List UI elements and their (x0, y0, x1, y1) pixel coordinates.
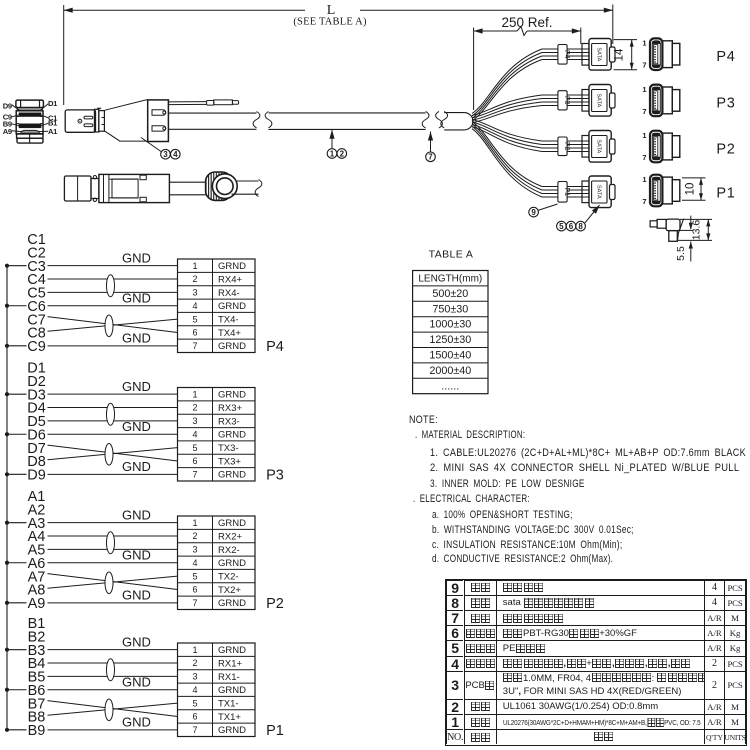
dimension L extension line left (63, 5, 65, 105)
SATA connector P1 latch nub (610, 185, 616, 200)
P3 twisted pair symbol RX (107, 403, 115, 425)
SATA connector P2 side view crimp (582, 136, 589, 158)
svg-text:4: 4 (192, 301, 197, 311)
svg-text:(SEE TABLE A): (SEE TABLE A) (293, 17, 367, 28)
svg-text:RX2+: RX2+ (218, 531, 242, 542)
svg-text:1000±30: 1000±30 (429, 319, 471, 331)
dimension 13.6 extension top (680, 218, 712, 220)
SATA P3 front view latch bars (653, 87, 660, 89)
svg-text:3: 3 (163, 150, 168, 159)
BOM row 5 (446, 640, 464, 655)
svg-text:3: 3 (192, 288, 197, 298)
svg-text:P2: P2 (563, 142, 570, 151)
svg-text:1: 1 (642, 85, 646, 94)
P4 twisted pair symbol TX (105, 315, 113, 337)
svg-text:5: 5 (192, 443, 197, 453)
svg-text:P2: P2 (716, 142, 735, 158)
dimension 13.6 extension bottom (677, 239, 712, 241)
svg-text:7: 7 (192, 725, 197, 735)
BOM row 9 (446, 580, 464, 595)
svg-text:1: 1 (330, 149, 335, 158)
P2 pin table (178, 516, 256, 609)
P1 twisted pair symbol TX (105, 699, 113, 721)
BOM row NO. (446, 729, 464, 744)
dimension 14 line (631, 40, 633, 70)
svg-text:GND: GND (122, 379, 151, 394)
svg-text:GND: GND (122, 507, 151, 522)
SATA P3 front view shell (650, 85, 662, 117)
svg-text:P4: P4 (266, 339, 284, 355)
svg-text:GRND: GRND (218, 390, 246, 401)
SATA P4 front view body (662, 41, 672, 68)
dimension 5.5 line (690, 242, 692, 262)
connector P0 face view A-row band (21, 130, 39, 133)
svg-text:GND: GND (122, 419, 151, 434)
svg-text:2: 2 (340, 149, 345, 158)
svg-text:TABLE A: TABLE A (429, 249, 474, 261)
svg-text:1: 1 (192, 389, 197, 399)
label band P3 (558, 91, 567, 110)
connector P0 face view bottom cap (17, 138, 43, 143)
wire bundle to P2 (472, 120, 589, 142)
svg-text:RX2-: RX2- (218, 545, 240, 556)
P4 signal wires (48, 265, 178, 267)
SATA P1 front view latch bars (653, 178, 660, 180)
svg-text:7: 7 (642, 153, 646, 162)
dimension 10 line (700, 178, 702, 200)
SATA connector P4 side view body (589, 39, 611, 71)
SATA P2 front view rear (672, 136, 680, 158)
dimension 13.6 line (707, 219, 709, 240)
svg-text:P4: P4 (716, 49, 735, 65)
callout circle 9 (529, 207, 539, 217)
svg-text:P2: P2 (266, 596, 284, 612)
svg-text:5: 5 (192, 571, 197, 581)
svg-text:C9: C9 (27, 339, 46, 355)
connector P0 face view body (16, 111, 43, 134)
svg-text:7: 7 (192, 470, 197, 480)
svg-text:GND: GND (122, 548, 151, 563)
BOM row 1 (446, 714, 464, 729)
svg-text:P3: P3 (563, 96, 570, 105)
SATA P1 front view contacts (654, 181, 658, 200)
svg-text:GRND: GRND (218, 341, 246, 352)
svg-text:250 Ref.: 250 Ref. (501, 15, 552, 30)
TABLE A grid (413, 271, 488, 394)
svg-text:P1: P1 (266, 723, 284, 739)
svg-text:TX1-: TX1- (218, 699, 239, 710)
wire bundle to P1 (472, 122, 589, 187)
svg-text:1: 1 (642, 131, 646, 140)
svg-text:GND: GND (122, 634, 151, 649)
svg-text:6: 6 (192, 712, 197, 722)
svg-text:1: 1 (192, 518, 197, 528)
callout circle 1 (327, 149, 337, 159)
svg-text:A9: A9 (3, 127, 12, 136)
svg-text:......: ...... (441, 380, 459, 392)
svg-text:5: 5 (559, 222, 564, 231)
right-angle SATA detail lower block (669, 231, 678, 242)
SATA connector P2 latch nub (610, 139, 616, 154)
svg-text:5.5: 5.5 (675, 246, 687, 261)
P0 plug bump (97, 107, 101, 109)
SATA connector P1 side view body (589, 176, 611, 208)
BOM row 4 (446, 656, 464, 671)
svg-text:GND: GND (122, 250, 151, 265)
svg-text:10: 10 (685, 183, 697, 196)
label band P4 (558, 45, 567, 65)
SATA P2 front view body (662, 133, 672, 160)
svg-text:TX2-: TX2- (218, 572, 239, 583)
P0 top view latch bumps (91, 179, 99, 199)
svg-text:6: 6 (192, 585, 197, 595)
wire bundle to P4 (472, 49, 589, 114)
svg-text:3: 3 (192, 672, 197, 682)
svg-text:3: 3 (192, 416, 197, 426)
P2 crossed TX pair wires (48, 574, 178, 590)
svg-text:D1: D1 (48, 99, 58, 108)
callout circle 2 (337, 149, 347, 159)
svg-text:8: 8 (578, 222, 583, 231)
svg-text:1: 1 (192, 261, 197, 271)
connector P0 face view B-row contact band (19, 124, 41, 128)
svg-text:GRND: GRND (218, 685, 246, 696)
SATA connector P4 latch nub (610, 47, 616, 62)
callout 5 6 8 arrow (585, 205, 600, 223)
P0 overmold block (148, 100, 169, 142)
P4 twisted pair symbol RX (107, 275, 115, 297)
label band P1 (558, 182, 567, 203)
svg-text:4: 4 (192, 685, 197, 695)
SATA P1 front view body (662, 177, 672, 204)
svg-text:P3: P3 (716, 95, 735, 111)
P0 plug prong upper (84, 116, 93, 119)
P1 ground stubs and bus dots (7, 649, 27, 651)
right-angle SATA detail body (666, 219, 680, 231)
svg-text:1: 1 (642, 39, 646, 48)
svg-text:3: 3 (192, 545, 197, 555)
SATA P2 front view contacts (654, 137, 658, 156)
callout circle 3 (161, 149, 171, 159)
wire bundle to P3 (472, 95, 589, 116)
svg-text:P1: P1 (716, 186, 735, 202)
svg-text:SATA: SATA (596, 47, 602, 61)
P0 plug hole (78, 119, 82, 123)
svg-text:6: 6 (569, 222, 574, 231)
right-angle SATA detail nose (650, 221, 657, 227)
P1 twisted pair symbol RX (107, 659, 115, 681)
svg-text:2: 2 (192, 658, 197, 668)
cable segment 1 (168, 112, 256, 114)
P4 crossed TX pair wires (48, 317, 178, 333)
svg-text:TX3-: TX3- (218, 443, 239, 454)
notes section (409, 414, 438, 426)
SATA P1 front view rear (672, 180, 680, 202)
BOM row 3 (446, 671, 464, 699)
svg-text:RX4+: RX4+ (218, 274, 242, 285)
svg-text:1500±40: 1500±40 (429, 350, 471, 362)
dimension 250 Ref. extension line left (473, 28, 475, 111)
svg-text:D9: D9 (27, 468, 46, 484)
svg-text:D9: D9 (3, 101, 12, 110)
svg-text:7: 7 (192, 341, 197, 351)
SATA P4 front view latch bars (653, 41, 660, 43)
SATA connector P3 latch nub (610, 93, 616, 108)
svg-text:6: 6 (192, 328, 197, 338)
P0 overmold vent slot lower (152, 126, 166, 131)
svg-text:RX3-: RX3- (218, 416, 240, 427)
cable break 1 (253, 112, 260, 128)
svg-text:GRND: GRND (218, 725, 246, 736)
P0 top view plug (64, 176, 91, 201)
SATA P4 front view contacts (654, 45, 658, 64)
svg-text:RX4-: RX4- (218, 288, 240, 299)
svg-text:6: 6 (192, 456, 197, 466)
svg-text:5: 5 (192, 698, 197, 708)
cable jacket end (444, 113, 473, 130)
callout 3 4 leader (141, 138, 161, 152)
dimension 10 extension lines (682, 177, 706, 179)
svg-text:1: 1 (642, 175, 646, 184)
P4 ground stubs and bus dots (7, 265, 27, 267)
svg-text:9: 9 (531, 208, 536, 217)
BOM row 8 (446, 595, 464, 610)
svg-text:TX4-: TX4- (218, 315, 239, 326)
callout circle 5 (557, 221, 567, 231)
SATA P1 front view shell (650, 175, 662, 207)
P2 twisted pair symbol TX (105, 572, 113, 594)
svg-text:SATA: SATA (596, 93, 602, 107)
pull ring hole (212, 174, 237, 199)
P2 ground stubs and bus dots (7, 522, 27, 524)
connector P0 face view lower shell (17, 134, 43, 138)
SATA connector P2 side view body (589, 131, 611, 163)
svg-text:2: 2 (192, 531, 197, 541)
P3 ground stubs and bus dots (7, 393, 27, 395)
BOM row 2 (446, 699, 464, 714)
svg-text:5: 5 (192, 314, 197, 324)
svg-text:GRND: GRND (218, 261, 246, 272)
SATA P2 front view latch bars (653, 134, 660, 136)
svg-text:RX3+: RX3+ (218, 403, 242, 414)
dimension 250 Ref. line with break symbol (474, 30, 517, 32)
P0 top view neck (169, 181, 206, 183)
callout 7 arrow (430, 132, 432, 153)
P0 top view rails (109, 178, 138, 180)
svg-text:GND: GND (122, 588, 151, 603)
SATA connector P3 side view crimp (582, 90, 589, 112)
svg-text:GRND: GRND (218, 558, 246, 569)
top view cable (237, 180, 259, 182)
SATA connector P1 side view crimp (582, 181, 589, 203)
svg-text:P4: P4 (563, 50, 570, 59)
connector P0 face view D-row band (17, 108, 42, 111)
P2 twisted pair symbol RX (107, 532, 115, 554)
callout circle 8 (576, 221, 586, 231)
svg-text:TX3+: TX3+ (218, 456, 241, 467)
pull tab handle (207, 101, 214, 106)
svg-text:7: 7 (192, 598, 197, 608)
P3 pin table (178, 388, 256, 481)
svg-text:TX1+: TX1+ (218, 712, 241, 723)
P0 latch section (94, 109, 98, 132)
cable segment 2 (269, 112, 426, 114)
svg-text:7: 7 (642, 197, 646, 206)
P3 signal wires (48, 393, 178, 395)
SATA P4 front view shell (650, 38, 662, 70)
svg-text:SATA: SATA (596, 185, 602, 199)
svg-text:SATA: SATA (596, 139, 602, 153)
P0 overmold taper (105, 100, 148, 141)
svg-text:1: 1 (192, 645, 197, 655)
P0 top view tabs (140, 175, 146, 180)
svg-text:4: 4 (192, 558, 197, 568)
svg-text:2: 2 (192, 274, 197, 284)
dimension 14 extension lines (614, 39, 637, 41)
svg-text:1250±30: 1250±30 (429, 334, 471, 346)
svg-text:2000±40: 2000±40 (429, 365, 471, 377)
SATA connector P4 side view crimp (582, 44, 589, 66)
svg-text:14: 14 (614, 48, 626, 61)
svg-text:7: 7 (428, 153, 433, 162)
callout circle 7 (426, 152, 436, 162)
svg-text:P1: P1 (563, 188, 570, 197)
svg-text:750±30: 750±30 (432, 303, 468, 315)
P0 plug prong lower (84, 124, 93, 127)
gauge line at nose (678, 229, 693, 231)
SATA connector P2 label area (592, 136, 607, 158)
P0 overmold vent slot upper (152, 110, 166, 115)
P2 signal wires (48, 522, 178, 524)
SATA P4 front view rear (672, 43, 680, 65)
P1 pin table (178, 643, 256, 736)
svg-text:A9: A9 (28, 596, 46, 612)
svg-text:4: 4 (173, 150, 178, 159)
cable break 2 (422, 111, 429, 128)
P4 pin table (178, 259, 256, 352)
dimension L line (64, 9, 305, 11)
svg-text:RX1+: RX1+ (218, 658, 242, 669)
svg-text:GRND: GRND (218, 518, 246, 529)
callout circle 6 (566, 221, 576, 231)
BOM row 7 (446, 610, 464, 625)
P1 signal wires (48, 649, 178, 651)
svg-text:GND: GND (122, 331, 151, 346)
svg-text:4: 4 (192, 429, 197, 439)
svg-text:GRND: GRND (218, 470, 246, 481)
svg-text:GRND: GRND (218, 430, 246, 441)
svg-text:TX4+: TX4+ (218, 328, 241, 339)
right-angle SATA detail cable (678, 219, 684, 241)
svg-text:RX1-: RX1- (218, 672, 240, 683)
svg-text:TX2+: TX2+ (218, 585, 241, 596)
ground bus line (6, 266, 8, 730)
SATA P2 front view shell (650, 131, 662, 163)
callout 1 2 arrow (331, 130, 333, 149)
BOM row 6 (446, 625, 464, 640)
svg-text:7: 7 (642, 107, 646, 116)
svg-text:GND: GND (122, 459, 151, 474)
connector P0 face view C-row contact band (19, 113, 41, 116)
callout circle 4 (171, 149, 181, 159)
right-angle SATA detail step (657, 219, 666, 228)
svg-text:B9: B9 (28, 723, 46, 739)
dimension 250 Ref. extension line right (580, 28, 582, 45)
SATA P3 front view body (662, 87, 672, 114)
SATA connector P4 label area (592, 44, 607, 66)
svg-text:GRND: GRND (218, 645, 246, 656)
P0 top view body (99, 174, 169, 202)
svg-text:500±20: 500±20 (432, 288, 468, 300)
svg-text:GRND: GRND (218, 301, 246, 312)
svg-text:GRND: GRND (218, 598, 246, 609)
svg-text:GND: GND (122, 715, 151, 730)
svg-text:LENGTH(mm): LENGTH(mm) (418, 274, 482, 285)
connector P0 plug body side view (65, 110, 95, 132)
svg-text:GND: GND (122, 291, 151, 306)
SATA connector P3 side view body (589, 85, 611, 117)
P3 twisted pair symbol TX (105, 443, 113, 465)
callout 9 leader (538, 204, 558, 211)
svg-text:A1: A1 (48, 127, 58, 136)
SATA P3 front view contacts (654, 91, 658, 110)
dimension L extension line right (612, 5, 614, 45)
SATA P3 front view rear (672, 90, 680, 112)
P3 crossed TX pair wires (48, 445, 178, 461)
label band P2 (558, 137, 567, 156)
P1 crossed TX pair wires (48, 701, 178, 717)
pull tab strap (168, 101, 206, 103)
SATA connector P1 label area (592, 181, 607, 203)
connector P0 face view top cap (16, 100, 44, 107)
svg-text:2: 2 (192, 403, 197, 413)
svg-text:P3: P3 (266, 467, 284, 483)
svg-text:7: 7 (642, 61, 646, 70)
svg-text:GND: GND (122, 675, 151, 690)
connector P0 face view key slots (16, 116, 19, 118)
SATA connector P3 label area (592, 90, 607, 112)
